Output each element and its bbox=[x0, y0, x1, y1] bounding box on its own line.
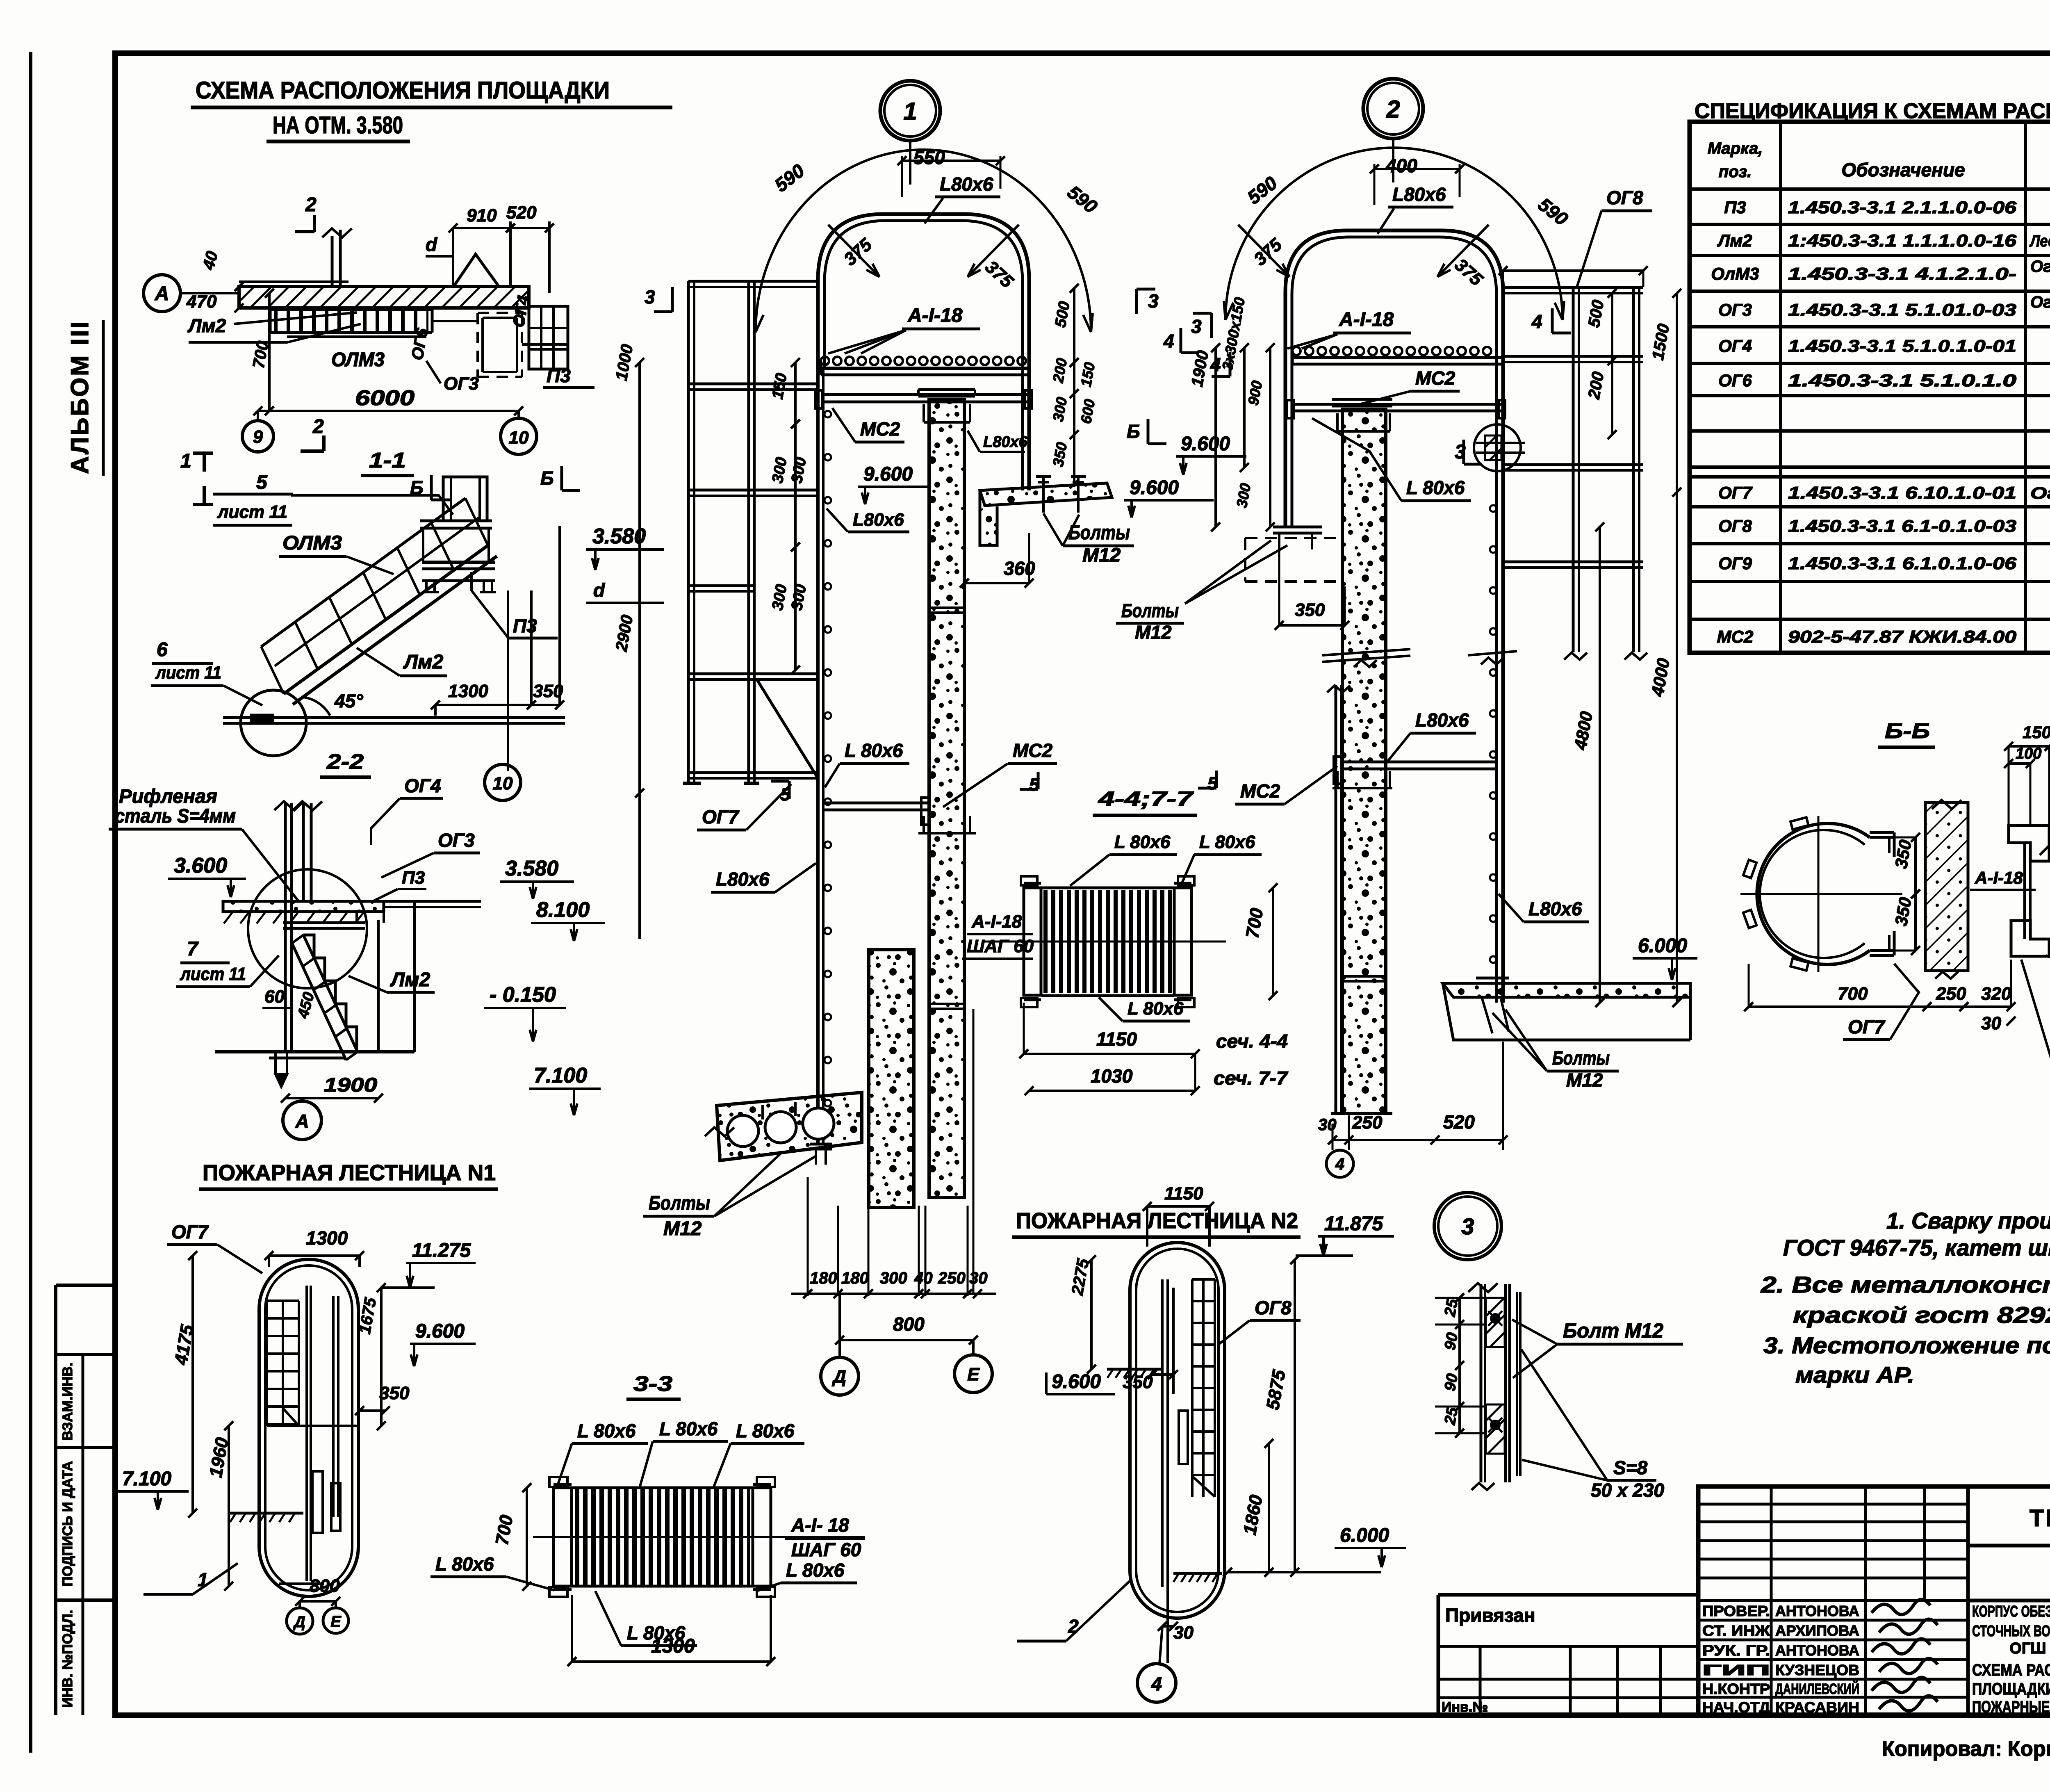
svg-text:30: 30 bbox=[1173, 1623, 1194, 1643]
svg-text:250: 250 bbox=[938, 1269, 966, 1287]
svg-text:150: 150 bbox=[2023, 723, 2050, 742]
svg-text:1.450.3-3.1 6.1.0.1.0-06: 1.450.3-3.1 6.1.0.1.0-06 bbox=[1788, 554, 2017, 573]
svg-text:АЛЬБОМ III: АЛЬБОМ III bbox=[66, 320, 93, 474]
svg-text:3: 3 bbox=[1148, 290, 1159, 312]
svg-text:902-5-47.87 КЖИ.84.00: 902-5-47.87 КЖИ.84.00 bbox=[1788, 627, 2016, 646]
svg-text:L80х6: L80х6 bbox=[940, 173, 993, 195]
svg-text:9.600: 9.600 bbox=[1052, 1371, 1101, 1393]
svg-text:470: 470 bbox=[186, 292, 217, 312]
svg-text:сталь S=4мм: сталь S=4мм bbox=[115, 805, 236, 827]
svg-text:L 80х6: L 80х6 bbox=[1114, 832, 1171, 852]
svg-text:d: d bbox=[593, 579, 605, 601]
svg-text:6.000: 6.000 bbox=[1638, 935, 1687, 957]
svg-text:2: 2 bbox=[1386, 96, 1400, 123]
svg-text:Болты: Болты bbox=[1552, 1047, 1610, 1069]
svg-text:ШАГ 60: ШАГ 60 bbox=[967, 936, 1034, 956]
svg-text:1.450.3-3.1 5.1.0.1.0: 1.450.3-3.1 5.1.0.1.0 bbox=[1788, 371, 2016, 390]
svg-text:4: 4 bbox=[1163, 331, 1174, 352]
svg-text:АНТОНОВА: АНТОНОВА bbox=[1775, 1642, 1859, 1659]
svg-text:1. Сварку производить электро: 1. Сварку производить электродами типа Э… bbox=[1886, 1208, 2050, 1233]
svg-text:3.600: 3.600 bbox=[174, 854, 227, 878]
svg-text:3.580: 3.580 bbox=[592, 524, 646, 548]
svg-text:А-I-18: А-I-18 bbox=[907, 305, 963, 326]
svg-text:Б: Б bbox=[1127, 421, 1140, 442]
svg-text:Н.КОНТР: Н.КОНТР bbox=[1702, 1680, 1770, 1697]
svg-text:ОГ7: ОГ7 bbox=[1848, 1016, 1886, 1037]
svg-text:сеч. 4-4: сеч. 4-4 bbox=[1216, 1031, 1288, 1052]
svg-text:НА ОТМ. 3.580: НА ОТМ. 3.580 bbox=[273, 112, 403, 139]
svg-text:М12: М12 bbox=[1135, 622, 1172, 643]
svg-text:520: 520 bbox=[1443, 1111, 1475, 1133]
svg-text:ОГ3: ОГ3 bbox=[1718, 300, 1752, 319]
svg-text:Лм2: Лм2 bbox=[1717, 231, 1752, 250]
svg-text:ОГ7: ОГ7 bbox=[702, 806, 740, 828]
svg-text:краской гост 8292-85 в 2 слоя: краской гост 8292-85 в 2 слоя по грунтов… bbox=[1793, 1302, 2050, 1328]
svg-text:Болты: Болты bbox=[1068, 522, 1130, 544]
svg-text:марки АР.: марки АР. bbox=[1795, 1362, 1914, 1388]
svg-text:4: 4 bbox=[1151, 1673, 1162, 1694]
svg-text:ОГ3: ОГ3 bbox=[444, 374, 479, 394]
svg-text:СТОЧНЫХ ВОД С 5 ЦЕНТРИФУГАМН: СТОЧНЫХ ВОД С 5 ЦЕНТРИФУГАМН bbox=[1972, 1623, 2050, 1640]
svg-text:550: 550 bbox=[913, 147, 945, 168]
svg-text:L 80х6: L 80х6 bbox=[659, 1418, 718, 1439]
svg-text:3: 3 bbox=[1461, 1213, 1474, 1239]
svg-text:L80х6: L80х6 bbox=[983, 433, 1028, 451]
svg-text:АРХИПОВА: АРХИПОВА bbox=[1775, 1622, 1859, 1639]
svg-text:250: 250 bbox=[1936, 984, 1966, 1004]
svg-text:1.450.3-3.1 5.1.01.0-03: 1.450.3-3.1 5.1.01.0-03 bbox=[1788, 300, 2016, 319]
svg-text:Копировал: Коршунова: Копировал: Коршунова bbox=[1882, 1737, 2050, 1761]
svg-text:S=8: S=8 bbox=[1613, 1457, 1648, 1478]
svg-text:поз.: поз. bbox=[1719, 163, 1752, 181]
svg-text:СТ. ИНЖ: СТ. ИНЖ bbox=[1702, 1622, 1770, 1639]
svg-text:1.450.3-3.1 4.1.2.1.0-: 1.450.3-3.1 4.1.2.1.0- bbox=[1788, 264, 2016, 283]
svg-text:А: А bbox=[295, 1110, 309, 1132]
svg-text:ОлМ3: ОлМ3 bbox=[1711, 264, 1759, 283]
svg-text:ИНВ. №ПОДЛ.: ИНВ. №ПОДЛ. bbox=[60, 1610, 75, 1708]
svg-text:Д: Д bbox=[293, 1614, 305, 1631]
svg-text:1.450.3-3.1 2.1.1.0.0-06: 1.450.3-3.1 2.1.1.0.0-06 bbox=[1788, 198, 2017, 217]
svg-text:L80х6: L80х6 bbox=[716, 869, 770, 890]
svg-text:ОГ7: ОГ7 bbox=[1718, 483, 1752, 502]
svg-text:АНТОНОВА: АНТОНОВА bbox=[1775, 1603, 1859, 1619]
svg-text:30: 30 bbox=[1981, 1013, 2001, 1033]
svg-text:П3: П3 bbox=[513, 615, 537, 636]
svg-text:Д: Д bbox=[831, 1367, 846, 1387]
svg-text:4-4;7-7: 4-4;7-7 bbox=[1098, 787, 1194, 810]
svg-text:1.450.3-3.1 6.1-0.1.0-03: 1.450.3-3.1 6.1-0.1.0-03 bbox=[1788, 516, 2016, 536]
svg-text:L 80х6: L 80х6 bbox=[786, 1559, 845, 1581]
svg-text:Лм2: Лм2 bbox=[187, 315, 226, 336]
svg-text:2-2: 2-2 bbox=[326, 750, 364, 774]
svg-text:Ограждение площа-: Ограждение площа- bbox=[2030, 293, 2050, 311]
svg-text:800: 800 bbox=[893, 1313, 925, 1335]
svg-text:ОГ8: ОГ8 bbox=[1255, 1297, 1291, 1318]
svg-text:7.100: 7.100 bbox=[122, 1468, 171, 1490]
svg-text:А-I- 18: А-I- 18 bbox=[791, 1514, 849, 1536]
svg-text:ГОСТ 9467-75, катет шва = 6 м: ГОСТ 9467-75, катет шва = 6 мм . bbox=[1783, 1235, 2050, 1261]
svg-text:3: 3 bbox=[1191, 316, 1202, 337]
svg-text:А-I-18: А-I-18 bbox=[1339, 309, 1394, 331]
svg-text:6000: 6000 bbox=[355, 386, 415, 410]
svg-text:ПОЖАРНАЯ ЛЕСТНИЦА N1: ПОЖАРНАЯ ЛЕСТНИЦА N1 bbox=[203, 1160, 496, 1185]
svg-text:10: 10 bbox=[493, 773, 513, 793]
svg-text:РУК. ГР.: РУК. ГР. bbox=[1702, 1642, 1770, 1659]
svg-text:Е: Е bbox=[967, 1364, 980, 1384]
svg-text:МС2: МС2 bbox=[1415, 367, 1455, 389]
svg-text:L 80х6: L 80х6 bbox=[1127, 999, 1184, 1019]
svg-text:1.450.3-3.1 5.1.0.1.0-01: 1.450.3-3.1 5.1.0.1.0-01 bbox=[1788, 336, 2016, 356]
svg-text:ВЗАМ.ИНВ.: ВЗАМ.ИНВ. bbox=[60, 1363, 75, 1441]
svg-text:Б: Б bbox=[410, 477, 424, 498]
svg-text:Обозначение: Обозначение bbox=[1841, 159, 1965, 180]
svg-text:9.600: 9.600 bbox=[1130, 477, 1179, 499]
svg-text:1: 1 bbox=[180, 450, 191, 472]
svg-text:ОГШ - 1001 К - 01: ОГШ - 1001 К - 01 bbox=[2009, 1640, 2050, 1657]
svg-text:М12: М12 bbox=[663, 1218, 702, 1240]
svg-text:250: 250 bbox=[1352, 1113, 1383, 1133]
svg-text:3-3: 3-3 bbox=[633, 1372, 672, 1396]
svg-text:Привязан: Привязан bbox=[1445, 1605, 1535, 1626]
svg-text:L 80х6: L 80х6 bbox=[1199, 832, 1255, 852]
svg-text:СХЕМА РАСПОЛОЖЕНИЯ ПЛОЩАДКИ: СХЕМА РАСПОЛОЖЕНИЯ ПЛОЩАДКИ bbox=[196, 77, 610, 104]
svg-text:2: 2 bbox=[312, 416, 324, 438]
svg-text:НАЧ.ОТД: НАЧ.ОТД bbox=[1702, 1699, 1770, 1716]
svg-text:1: 1 bbox=[903, 98, 917, 125]
svg-text:60: 60 bbox=[264, 987, 285, 1007]
svg-text:СПЕЦИФИКАЦИЯ К СХЕМАМ РАСПОЛОЖ: СПЕЦИФИКАЦИЯ К СХЕМАМ РАСПОЛОЖЕНИЯ ПЛОЩА… bbox=[1695, 99, 2050, 123]
svg-text:Ограждение марша: Ограждение марша bbox=[2030, 258, 2050, 276]
svg-text:СХЕМА РАСПОЛОЖЕНИЯ: СХЕМА РАСПОЛОЖЕНИЯ bbox=[1972, 1661, 2050, 1679]
svg-text:1300: 1300 bbox=[651, 1635, 695, 1657]
svg-text:L80х6: L80х6 bbox=[1392, 184, 1446, 205]
svg-text:350: 350 bbox=[1123, 1372, 1153, 1392]
svg-text:М12: М12 bbox=[1082, 545, 1121, 566]
svg-text:Болт М12: Болт М12 bbox=[1563, 1319, 1663, 1342]
svg-text:d: d bbox=[426, 234, 437, 255]
svg-text:180: 180 bbox=[841, 1269, 869, 1287]
svg-text:1300: 1300 bbox=[306, 1227, 348, 1249]
svg-text:сеч. 7-7: сеч. 7-7 bbox=[1214, 1067, 1289, 1089]
svg-text:10: 10 bbox=[509, 428, 529, 448]
svg-text:3. Местоположение пожарных ле: 3. Местоположение пожарных лестниц см. ч… bbox=[1763, 1332, 2050, 1358]
svg-text:800: 800 bbox=[310, 1576, 340, 1596]
svg-text:400: 400 bbox=[1385, 155, 1417, 176]
svg-text:Болты: Болты bbox=[1121, 600, 1179, 621]
svg-text:П3: П3 bbox=[1724, 198, 1746, 217]
svg-text:Болты: Болты bbox=[649, 1192, 710, 1214]
svg-text:Лм2: Лм2 bbox=[403, 651, 443, 673]
svg-text:ПОДПИСЬ И ДАТА: ПОДПИСЬ И ДАТА bbox=[60, 1461, 75, 1587]
svg-text:лист 11: лист 11 bbox=[217, 502, 287, 522]
svg-text:ОГ8: ОГ8 bbox=[1718, 516, 1752, 536]
svg-text:180: 180 bbox=[810, 1269, 837, 1287]
svg-text:1300: 1300 bbox=[448, 681, 488, 701]
svg-text:ПРОВЕР.: ПРОВЕР. bbox=[1702, 1603, 1770, 1619]
svg-text:МС2: МС2 bbox=[1013, 740, 1053, 761]
svg-text:1150: 1150 bbox=[1096, 1028, 1137, 1050]
svg-text:лист 11: лист 11 bbox=[155, 663, 221, 683]
svg-text:5: 5 bbox=[256, 472, 268, 493]
svg-text:520: 520 bbox=[506, 203, 537, 223]
svg-text:11.275: 11.275 bbox=[412, 1240, 471, 1261]
svg-text:МС2: МС2 bbox=[1717, 627, 1754, 646]
svg-text:1.450.3-3.1 6.10.1.0-01: 1.450.3-3.1 6.10.1.0-01 bbox=[1788, 483, 2016, 502]
svg-text:1:450.3-3.1 1.1.1.0.0-16: 1:450.3-3.1 1.1.1.0.0-16 bbox=[1788, 231, 2017, 250]
svg-text:8.100: 8.100 bbox=[536, 898, 590, 922]
svg-text:320: 320 bbox=[1981, 984, 2011, 1004]
svg-text:лист 11: лист 11 bbox=[180, 964, 246, 984]
svg-text:ОГ7: ОГ7 bbox=[171, 1221, 209, 1243]
svg-text:L80х6: L80х6 bbox=[1415, 709, 1469, 731]
svg-text:3.580: 3.580 bbox=[505, 857, 558, 880]
svg-text:9.600: 9.600 bbox=[1181, 433, 1230, 455]
svg-text:ОЛМ3: ОЛМ3 bbox=[282, 532, 342, 554]
svg-text:ОГ4: ОГ4 bbox=[404, 775, 441, 796]
svg-text:350: 350 bbox=[379, 1383, 410, 1403]
svg-text:30: 30 bbox=[969, 1269, 988, 1287]
svg-text:КУЗНЕЦОВ: КУЗНЕЦОВ bbox=[1775, 1662, 1859, 1678]
svg-text:9: 9 bbox=[253, 427, 263, 447]
svg-text:ДАНИЛЕВСКИЙ: ДАНИЛЕВСКИЙ bbox=[1775, 1680, 1859, 1697]
svg-text:П3: П3 bbox=[402, 868, 425, 888]
svg-text:ШАГ 60: ШАГ 60 bbox=[791, 1539, 861, 1560]
svg-text:1-1: 1-1 bbox=[369, 449, 406, 472]
svg-text:6.000: 6.000 bbox=[1340, 1525, 1389, 1546]
svg-text:L 80х6: L 80х6 bbox=[577, 1420, 636, 1441]
svg-text:9.600: 9.600 bbox=[415, 1320, 465, 1342]
svg-text:25: 25 bbox=[1441, 1406, 1461, 1427]
svg-text:3: 3 bbox=[645, 286, 655, 308]
svg-text:П3: П3 bbox=[547, 365, 571, 386]
svg-text:700: 700 bbox=[1838, 984, 1868, 1004]
svg-text:ОГ4: ОГ4 bbox=[1718, 336, 1752, 356]
svg-text:360: 360 bbox=[1004, 558, 1035, 579]
svg-text:4: 4 bbox=[1531, 311, 1542, 332]
svg-text:1900: 1900 bbox=[324, 1074, 377, 1096]
svg-text:300: 300 bbox=[880, 1269, 907, 1287]
svg-text:45°: 45° bbox=[334, 690, 363, 711]
svg-text:ОГ6: ОГ6 bbox=[1718, 371, 1752, 390]
svg-text:ОГ9: ОГ9 bbox=[1718, 554, 1752, 573]
svg-text:50 х 230: 50 х 230 bbox=[1591, 1480, 1664, 1501]
svg-text:Лестничный марш МЛХШУ5-36В: Лестничный марш МЛХШУ5-36В bbox=[2029, 232, 2050, 250]
svg-text:ОГ8: ОГ8 bbox=[1606, 187, 1643, 208]
svg-text:Лм2: Лм2 bbox=[390, 969, 430, 991]
svg-text:Е: Е bbox=[330, 1613, 342, 1630]
svg-text:ПЛОЩАДКИ НА ОТМ. 3.580: ПЛОЩАДКИ НА ОТМ. 3.580 bbox=[1972, 1680, 2050, 1698]
svg-text:L 80х6: L 80х6 bbox=[435, 1553, 494, 1575]
svg-text:2. Все металлоконструкции окр: 2. Все металлоконструкции окрасить масля… bbox=[1761, 1272, 2050, 1297]
svg-text:ПОЖАРНЫЕ ЛЕСТНИЦЫ N 1.2: ПОЖАРНЫЕ ЛЕСТНИЦЫ N 1.2 bbox=[1972, 1698, 2050, 1716]
svg-text:7: 7 bbox=[187, 938, 199, 960]
svg-text:Марка,: Марка, bbox=[1708, 139, 1763, 157]
svg-text:А: А bbox=[155, 283, 169, 305]
svg-text:- 0.150: - 0.150 bbox=[490, 983, 556, 1007]
svg-text:Б-Б: Б-Б bbox=[1885, 719, 1930, 743]
svg-text:МС2: МС2 bbox=[1240, 780, 1280, 802]
svg-text:КОРПУС ОБЕЗВОЖИВАНИЯ ОСАДКА: КОРПУС ОБЕЗВОЖИВАНИЯ ОСАДКА bbox=[1972, 1603, 2050, 1620]
svg-text:А-I-18: А-I-18 bbox=[1975, 868, 2023, 887]
svg-text:4: 4 bbox=[1335, 1155, 1344, 1173]
svg-text:L 80х6: L 80х6 bbox=[845, 740, 903, 761]
svg-text:910: 910 bbox=[467, 205, 497, 226]
svg-text:30: 30 bbox=[1318, 1116, 1337, 1134]
svg-text:КРАСАВИН: КРАСАВИН bbox=[1775, 1699, 1859, 1716]
svg-text:ОЛМ3: ОЛМ3 bbox=[331, 349, 385, 371]
svg-text:25: 25 bbox=[1441, 1297, 1461, 1318]
svg-text:90: 90 bbox=[1442, 1331, 1462, 1352]
svg-text:350: 350 bbox=[1295, 600, 1325, 620]
svg-text:L80х6: L80х6 bbox=[1528, 898, 1582, 919]
svg-text:МС2: МС2 bbox=[860, 418, 900, 440]
svg-text:40: 40 bbox=[914, 1269, 933, 1287]
svg-text:L80х6: L80х6 bbox=[853, 510, 904, 530]
svg-text:11.875: 11.875 bbox=[1324, 1213, 1384, 1235]
svg-text:L 80х6: L 80х6 bbox=[736, 1420, 795, 1441]
svg-text:1150: 1150 bbox=[1164, 1183, 1203, 1204]
svg-text:ТП 902-5-47.87: ТП 902-5-47.87 bbox=[2029, 1505, 2050, 1532]
svg-text:2: 2 bbox=[305, 194, 317, 216]
svg-text:L 80х6: L 80х6 bbox=[1406, 477, 1465, 498]
svg-text:ГИП: ГИП bbox=[1702, 1662, 1770, 1678]
svg-text:1030: 1030 bbox=[1091, 1065, 1133, 1087]
svg-text:9.600: 9.600 bbox=[863, 463, 913, 485]
svg-text:Б: Б bbox=[540, 467, 554, 489]
svg-text:ПОЖАРНАЯ ЛЕСТНИЦА N2: ПОЖАРНАЯ ЛЕСТНИЦА N2 bbox=[1016, 1208, 1298, 1233]
svg-text:Ограждение ОГС-18.4: Ограждение ОГС-18.4 bbox=[2030, 484, 2050, 502]
svg-text:М12: М12 bbox=[1566, 1069, 1603, 1091]
svg-text:Инв.№: Инв.№ bbox=[1442, 1699, 1488, 1715]
svg-text:А-I-18: А-I-18 bbox=[971, 912, 1022, 932]
svg-text:Рифленая: Рифленая bbox=[119, 786, 217, 807]
svg-text:100: 100 bbox=[2016, 745, 2041, 762]
svg-text:6: 6 bbox=[157, 639, 168, 661]
svg-text:ОГ3: ОГ3 bbox=[438, 830, 475, 851]
svg-text:90: 90 bbox=[1442, 1372, 1462, 1393]
svg-text:7.100: 7.100 bbox=[534, 1064, 587, 1088]
